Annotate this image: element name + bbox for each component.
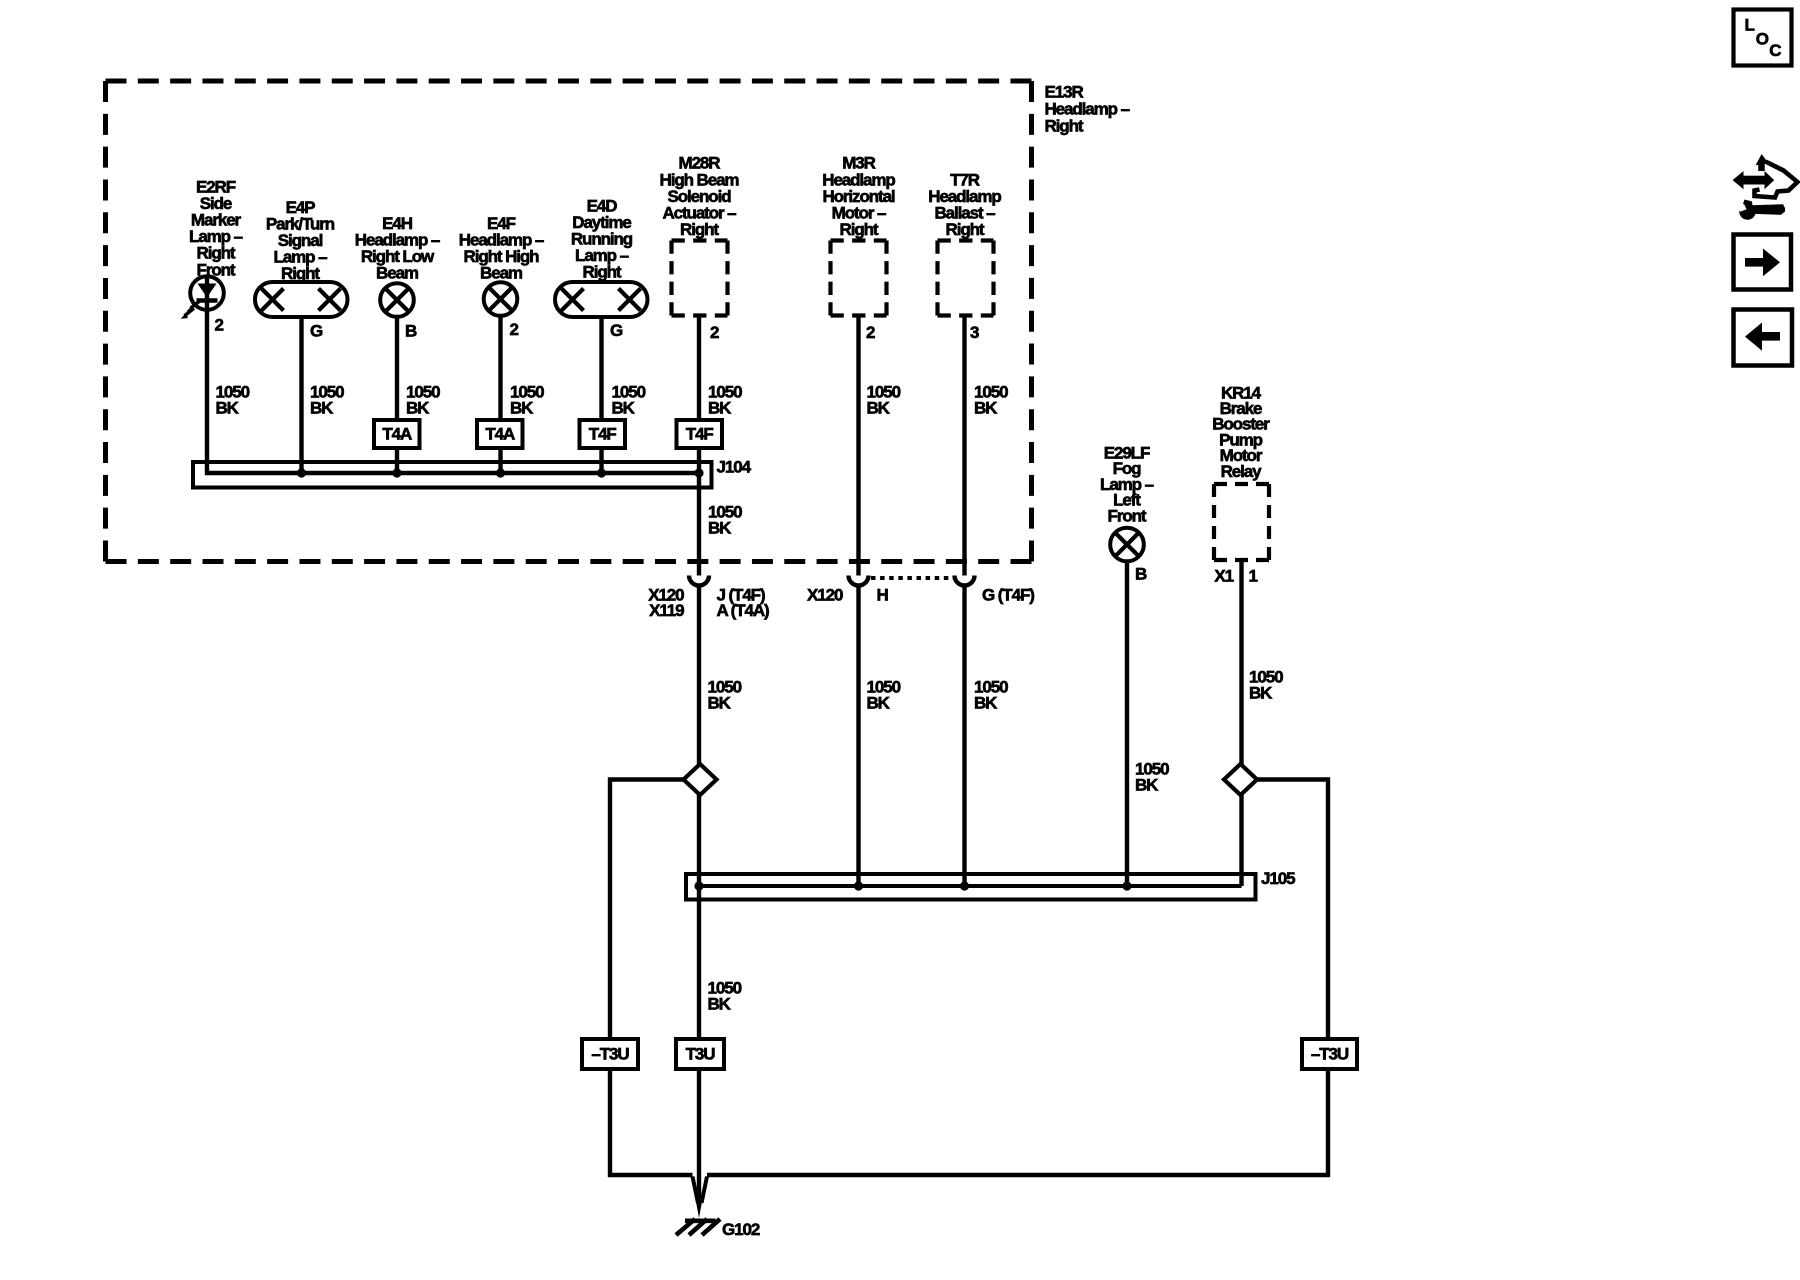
icon schematic navigation (arrows and wrench) [1733, 154, 1798, 220]
svg-text:BK: BK [708, 518, 732, 537]
wire T7R to connector [962, 315, 966, 576]
svg-text:B: B [405, 322, 417, 341]
wire E2RF to J104 conductor [207, 277, 700, 473]
svg-text:Beam: Beam [480, 264, 523, 283]
svg-text:3: 3 [970, 323, 979, 342]
wire E4H T4A to J104 [395, 448, 399, 473]
svg-text:G: G [610, 321, 623, 340]
svg-text:BK: BK [867, 398, 891, 417]
wire M28R to T4F [697, 315, 701, 420]
svg-text:BK: BK [708, 398, 732, 417]
label E4D [571, 196, 633, 281]
lamp E2RF Side Marker (LED symbol) [190, 276, 224, 310]
terminal box T4A E4H [374, 420, 420, 448]
label M3R [822, 154, 895, 239]
svg-text:BK: BK [612, 398, 636, 417]
label E13R [1045, 82, 1130, 135]
svg-text:–T3U: –T3U [591, 1045, 629, 1064]
svg-text:Front: Front [197, 260, 236, 279]
ground strap box -T3U left [582, 1039, 638, 1069]
wire right T3U to ground bus [707, 1069, 1328, 1175]
wire diamond left branch to T3U [610, 780, 684, 1040]
ground G102 [685, 1219, 716, 1224]
icon LOC box [1734, 10, 1792, 66]
svg-text:X119: X119 [649, 601, 684, 620]
wire E4F to T4A [498, 315, 502, 420]
svg-text:BK: BK [974, 693, 998, 712]
wire M3R to connector X120 [856, 315, 860, 576]
svg-text:X1: X1 [1214, 567, 1233, 586]
svg-text:X120: X120 [807, 586, 843, 605]
splice pack J104 [193, 462, 712, 488]
svg-text:2: 2 [710, 323, 719, 342]
svg-text:T4A: T4A [485, 425, 515, 444]
connector cup X120 G [955, 576, 975, 586]
wire E4D to T4F [599, 317, 603, 421]
ground strap box T3U center [676, 1039, 724, 1069]
wire E4P to J104 [299, 317, 303, 473]
svg-text:BK: BK [510, 398, 534, 417]
wire T3U to ground G102 [697, 1069, 701, 1202]
svg-text:Right: Right [840, 220, 879, 239]
lamp E4P Park/Turn dual filament [255, 282, 348, 317]
svg-text:BK: BK [406, 398, 430, 417]
svg-text:Relay: Relay [1221, 462, 1263, 481]
svg-text:BK: BK [216, 398, 240, 417]
svg-text:Right: Right [1045, 116, 1084, 135]
svg-text:Right: Right [583, 263, 622, 282]
connector cup X120/X119 main [689, 576, 709, 586]
ground convergence arrows [693, 1177, 699, 1204]
dashed link between connectors [871, 576, 953, 580]
wire X120 to diamond splice [697, 586, 701, 765]
label E2RF [189, 177, 243, 279]
svg-text:T3U: T3U [686, 1045, 716, 1064]
svg-text:G102: G102 [722, 1220, 760, 1239]
svg-text:Beam: Beam [376, 264, 419, 283]
svg-text:H: H [877, 586, 889, 605]
svg-text:T4F: T4F [589, 425, 617, 444]
svg-text:BK: BK [1249, 683, 1273, 702]
label E29LF [1100, 443, 1154, 525]
wire diamond through J105 to T3U [697, 795, 701, 1039]
svg-text:T4A: T4A [382, 425, 412, 444]
svg-text:G (T4F): G (T4F) [982, 586, 1034, 605]
svg-text:G: G [310, 322, 323, 341]
svg-text:A (T4A): A (T4A) [717, 601, 770, 620]
terminal box T4F M28R [677, 420, 723, 448]
wire KR14 diamond to J105 [1239, 795, 1243, 886]
wire E4H to T4A [395, 316, 399, 420]
label M28R [660, 154, 740, 239]
terminal box T4F E4D [580, 420, 626, 448]
svg-text:B: B [1135, 565, 1147, 584]
svg-text:Front: Front [1108, 507, 1147, 526]
ground strap box -T3U right [1302, 1039, 1357, 1069]
icon next arrow box [1734, 235, 1792, 290]
connector cup X120 H [849, 576, 869, 586]
junction dots J104 [297, 468, 306, 477]
svg-text:1: 1 [1249, 567, 1258, 586]
label T7R [928, 170, 1001, 239]
lamp E29LF fog lamp [1110, 528, 1144, 562]
svg-text:BK: BK [1135, 775, 1159, 794]
label E4P [266, 198, 335, 283]
svg-text:BK: BK [974, 398, 998, 417]
wire M3R connector to J105 [856, 586, 860, 887]
svg-text:2: 2 [215, 316, 224, 335]
label E4H [355, 214, 440, 283]
svg-text:BK: BK [310, 398, 334, 417]
svg-text:–T3U: –T3U [1311, 1045, 1349, 1064]
svg-text:2: 2 [866, 323, 875, 342]
splice pack J105 [686, 874, 1256, 900]
wire M28R T4F through J104 to connector X120 [697, 448, 701, 576]
svg-text:BK: BK [708, 994, 732, 1013]
svg-text:J104: J104 [717, 458, 752, 477]
svg-text:L: L [1745, 16, 1755, 35]
wire KR14 to diamond splice [1239, 560, 1243, 764]
wire E29LF to J105 [1125, 561, 1129, 886]
dashed boundary box E13R Headlamp Right [106, 79, 1032, 84]
wire diamond right branch to T3U [1257, 780, 1328, 1040]
label E4F [459, 214, 544, 283]
relay KR14 dashed box [1214, 482, 1269, 486]
ballast T7R dashed box [938, 238, 994, 242]
motor M3R dashed box [831, 238, 887, 242]
wire left T3U to ground bus [610, 1069, 693, 1175]
svg-text:2: 2 [510, 320, 519, 339]
svg-text:Right: Right [946, 220, 985, 239]
svg-text:BK: BK [867, 693, 891, 712]
lamp E4H low beam [380, 283, 414, 317]
lamp E4D daytime running [555, 282, 648, 317]
icon back arrow box [1734, 310, 1793, 366]
diamond splice left [684, 764, 717, 795]
svg-text:Right: Right [680, 220, 719, 239]
label KR14 [1212, 383, 1270, 481]
svg-text:J105: J105 [1261, 869, 1295, 888]
svg-text:BK: BK [708, 693, 732, 712]
wire T7R connector to J105 [962, 586, 966, 887]
lamp E4F high beam [484, 282, 518, 316]
wire E4F T4A to J104 [498, 448, 502, 473]
svg-text:Right: Right [281, 264, 320, 283]
actuator M28R dashed box [672, 238, 728, 242]
svg-text:C: C [1769, 41, 1781, 60]
diamond splice right [1224, 764, 1257, 795]
svg-text:O: O [1756, 30, 1769, 49]
terminal box T4A E4F [477, 420, 523, 448]
wire E4D T4F to J104 [599, 448, 603, 473]
svg-text:T4F: T4F [686, 425, 714, 444]
